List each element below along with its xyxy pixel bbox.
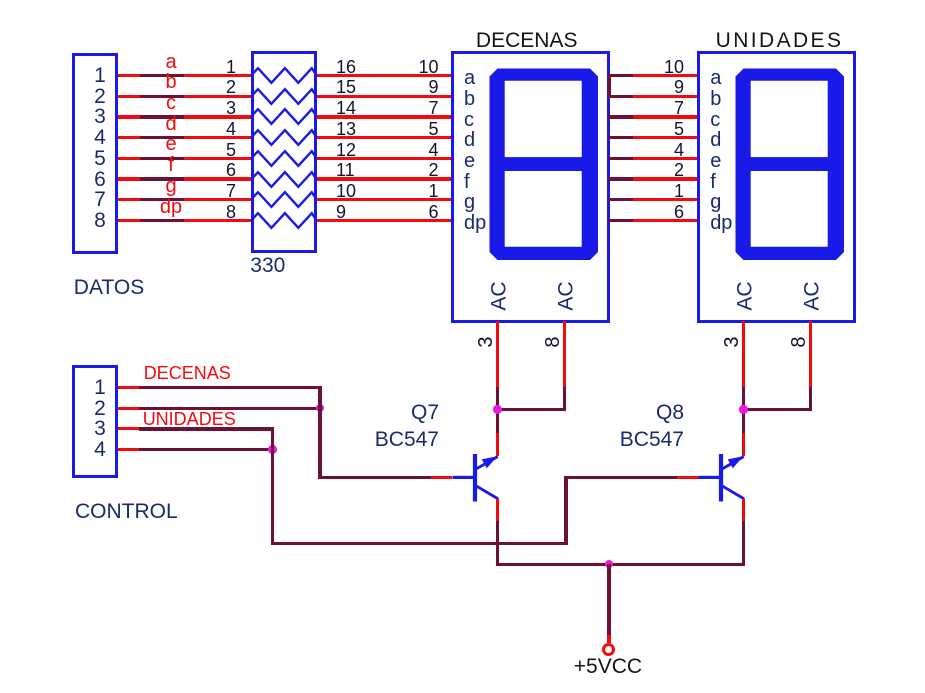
UNIDADES AC pin 8 wire (net) [809, 387, 812, 411]
wire DECENAS to UNIDADES segment d (net part) [608, 136, 633, 139]
DECENAS AC label right [556, 281, 577, 310]
wire +5VCC stem tip [607, 635, 611, 644]
DECENAS segment pin label a [464, 68, 475, 88]
wire Q7 emitter (net) [496, 521, 499, 566]
label CONTROL [75, 501, 178, 522]
wire RN1 pin 9 to DECENAS segment dp [317, 219, 452, 222]
wire RN1 pin 15 to DECENAS segment b [317, 95, 452, 98]
wire DECENAS to UNIDADES segment f (net part) [608, 177, 633, 181]
pin number 8 of UNIDADES [789, 336, 809, 347]
DATOS pin 3 number [94, 106, 106, 127]
wire dp from DATOS pin 8 to RN1 pin 8 [118, 219, 252, 222]
pin number 11 of RN1 [336, 161, 355, 179]
pin number 14 of RN1 [336, 99, 356, 117]
DECENAS 7-segment digit [489, 68, 599, 261]
wire f from DATOS pin 6 to RN1 pin 6 [118, 177, 252, 181]
label DATOS [74, 277, 144, 298]
pin number 4 of UNIDADES [674, 141, 684, 159]
wire DECENAS to UNIDADES segment g (net part) [608, 198, 633, 201]
pin number 2 of UNIDADES [674, 161, 684, 179]
pin number 6 of DECENAS [428, 203, 438, 221]
wire DECENAS to UNIDADES segment dp (net part) [608, 219, 633, 222]
wire Q8 emitter (net) [742, 521, 745, 566]
pin number 9 of DECENAS [428, 78, 438, 96]
wire RN1 pin 11 to DECENAS segment f [317, 177, 452, 181]
wire DECENAS to UNIDADES segment f [633, 177, 698, 181]
wire d from DATOS pin 4 to RN1 pin 4 [118, 136, 252, 139]
pin number 5 of RN1 [226, 141, 236, 159]
wire DECENAS to UNIDADES segment a [633, 74, 698, 77]
resistor element 7 of RN1 [250, 190, 318, 209]
pin number 16 of RN1 [336, 58, 356, 76]
pin number 5 of DECENAS [428, 120, 438, 138]
terminal +5VCC [602, 643, 615, 656]
pin number 10 of DECENAS [418, 58, 438, 76]
DECENAS segment pin label g [464, 192, 475, 212]
wire Q8 emitter (red) [742, 499, 745, 521]
pin number 13 of RN1 [336, 120, 356, 138]
wire CONTROL pin 2 stub [118, 407, 140, 410]
UNIDADES segment pin label f [710, 172, 716, 192]
UNIDADES segment pin label g [710, 192, 721, 212]
DATOS pin 6 number [94, 169, 106, 190]
net label dp [160, 197, 182, 217]
UNIDADES AC pin 8 wire (red) [809, 321, 812, 388]
resistor element 3 of RN1 [250, 107, 318, 126]
wire to Q8 base (red) [677, 476, 700, 479]
DECENAS segment pin label dp [464, 213, 486, 233]
pin number 10 of RN1 [336, 182, 356, 200]
pin number 10 of UNIDADES [664, 58, 684, 76]
pin number 1 of DECENAS [428, 182, 438, 200]
pin number 6 of UNIDADES [674, 203, 684, 221]
DATOS pin 4 number [94, 127, 106, 148]
wire b from DATOS pin 2 to RN1 pin 2 [118, 95, 252, 98]
pin number 1 of UNIDADES [674, 182, 684, 200]
UNIDADES AC pin 3 wire (red) [742, 321, 745, 388]
wire UNIDADES control vertical up [564, 476, 567, 545]
DECENAS AC pin 3 wire (net) [496, 387, 499, 433]
resistor element 5 of RN1 [250, 149, 318, 168]
label +5VCC [574, 656, 642, 677]
net label b [165, 72, 176, 92]
pin number 5 of UNIDADES [674, 120, 684, 138]
DECENAS segment pin label e [464, 151, 475, 171]
resistor element 2 of RN1 [250, 87, 318, 106]
DATOS pin 8 number [94, 210, 106, 231]
pin number 4 of RN1 [226, 120, 236, 138]
pin number 8 of DECENAS [543, 336, 563, 347]
label Q7 value BC547 [375, 429, 439, 450]
pin number 9 of UNIDADES [674, 78, 684, 96]
wire DECENAS to UNIDADES segment a (net part) [608, 74, 633, 77]
net label a [165, 52, 176, 72]
CONTROL pin 2 number [94, 398, 106, 419]
resistor element 1 of RN1 [250, 66, 318, 85]
wire DECENAS control net (pin1) [139, 386, 321, 389]
label Q7 [411, 402, 439, 423]
DATOS pin 2 number [94, 86, 106, 107]
net label f [168, 155, 174, 175]
DATOS pin 5 number [94, 148, 106, 169]
vertical net jog at DECENAS edge [608, 75, 611, 96]
wire UNIDADES control horizontal low [271, 542, 568, 545]
junction UNIDADES AC node [739, 405, 747, 413]
transistor Q8 [696, 448, 748, 504]
label Q8 value BC547 [620, 429, 684, 450]
wire RN1 pin 12 to DECENAS segment e [317, 157, 452, 160]
DECENAS segment pin label d [464, 130, 475, 150]
wire DECENAS to UNIDADES segment e [633, 157, 698, 160]
UNIDADES segment pin label a [710, 68, 721, 88]
pin number 7 of DECENAS [428, 99, 438, 117]
net segment on wire e [140, 157, 184, 160]
DATOS pin 7 number [94, 189, 106, 210]
CONTROL pin 4 number [94, 439, 106, 460]
wire DECENAS to UNIDADES segment e (net part) [608, 157, 633, 160]
net label e [165, 134, 176, 154]
pin number 3 of DECENAS [476, 336, 496, 347]
wire c from DATOS pin 3 to RN1 pin 3 [118, 115, 252, 119]
wire DECENAS control net (pin2) [139, 407, 318, 410]
DECENAS AC pin 3 wire to Q7 collector [496, 433, 499, 456]
wire UNIDADES control net (pin3) [139, 427, 274, 431]
wire RN1 pin 14 to DECENAS segment c [317, 115, 452, 119]
wire joining DECENAS AC pins [496, 408, 566, 411]
net segment on wire b [140, 95, 184, 98]
label Q8 [656, 402, 684, 423]
DECENAS AC pin 8 wire (red) [563, 321, 566, 388]
wire DECENAS to UNIDADES segment d [633, 136, 698, 139]
UNIDADES AC pin 3 wire (net) [742, 387, 745, 433]
wire emitter rail [496, 563, 745, 566]
wire Q7 emitter (red) [496, 499, 499, 521]
pin number 4 of DECENAS [428, 141, 438, 159]
label DECENAS title [476, 30, 578, 51]
wire RN1 pin 16 to DECENAS segment a [317, 74, 452, 77]
junction CONTROL pins 1-2 [316, 404, 324, 412]
junction +5VCC node [605, 560, 613, 568]
UNIDADES AC label right [802, 281, 823, 310]
pin number 2 of DECENAS [428, 161, 438, 179]
DECENAS segment pin label b [464, 89, 475, 109]
pin number 12 of RN1 [336, 141, 356, 159]
net label d [165, 114, 176, 134]
value label 330 [250, 255, 285, 276]
UNIDADES segment pin label c [710, 110, 720, 130]
UNIDADES segment pin label dp [710, 213, 732, 233]
wire to Q8 base (net) [564, 476, 677, 479]
display DS1 DECENAS body [451, 51, 610, 323]
pin number 15 of RN1 [336, 78, 356, 96]
wire to Q7 base (red) [431, 476, 452, 479]
wire +5VCC stem [607, 564, 610, 635]
net label g [165, 176, 176, 196]
DECENAS AC pin 8 wire (net) [563, 387, 566, 411]
display DS2 UNIDADES body [697, 51, 856, 323]
resistor network RN1 body [251, 51, 317, 253]
net segment on wire g [140, 198, 184, 201]
UNIDADES segment pin label d [710, 130, 721, 150]
UNIDADES segment pin label e [710, 151, 721, 171]
wire DECENAS to UNIDADES segment b [633, 95, 698, 98]
pin number 2 of RN1 [226, 78, 236, 96]
wire CONTROL pin 3 stub [118, 427, 140, 430]
net segment on wire f [140, 177, 184, 181]
pin number 7 of UNIDADES [674, 99, 684, 117]
pin number 6 of RN1 [226, 161, 236, 179]
DATOS pin 1 number [94, 65, 106, 86]
UNIDADES AC label left [735, 281, 756, 310]
pin number 9 of RN1 [336, 203, 346, 221]
wire g from DATOS pin 7 to RN1 pin 7 [118, 198, 252, 201]
CONTROL pin 1 number [94, 377, 106, 398]
pin number 3 of RN1 [226, 99, 236, 117]
resistor element 6 of RN1 [250, 170, 318, 189]
DECENAS AC pin 3 wire (red) [496, 321, 499, 388]
wire RN1 pin 13 to DECENAS segment d [317, 136, 452, 139]
net label c [166, 93, 176, 113]
UNIDADES AC pin 3 wire to Q8 collector [742, 433, 745, 456]
wire DECENAS to UNIDADES segment g [633, 198, 698, 201]
junction DECENAS AC node [493, 405, 501, 413]
transistor Q7 [450, 448, 502, 504]
wire to Q7 base (net) [318, 476, 431, 479]
pin number 3 of UNIDADES [722, 336, 742, 347]
wire DECENAS to UNIDADES segment dp [633, 219, 698, 222]
wire DECENAS to UNIDADES segment c [633, 115, 698, 119]
label UNIDADES title [716, 30, 844, 51]
wire CONTROL pin 4 stub [118, 448, 140, 451]
pin number 7 of RN1 [226, 182, 236, 200]
resistor element 8 of RN1 [250, 211, 318, 230]
wire UNIDADES control net (pin4) [139, 448, 271, 451]
wire CONTROL pin 1 stub [118, 386, 140, 389]
junction CONTROL pins 3-4 [268, 445, 276, 453]
connector J2 CONTROL body [72, 365, 118, 478]
connector J1 DATOS body [72, 53, 118, 254]
wire DECENAS to UNIDADES segment c (net part) [608, 115, 633, 119]
net segment on wire dp [140, 219, 184, 222]
wire UNIDADES control vertical [271, 429, 274, 545]
UNIDADES 7-segment digit [735, 68, 845, 261]
wire e from DATOS pin 5 to RN1 pin 5 [118, 157, 252, 160]
pin number 8 of RN1 [226, 203, 236, 221]
net label UNIDADES [143, 410, 236, 428]
net segment on wire c [140, 115, 184, 119]
UNIDADES segment pin label b [710, 89, 721, 109]
wire joining UNIDADES AC pins [742, 408, 812, 411]
net segment on wire d [140, 136, 184, 139]
wire DECENAS to UNIDADES segment b (net part) [608, 95, 633, 98]
DECENAS segment pin label c [464, 110, 474, 130]
resistor element 4 of RN1 [250, 128, 318, 147]
net segment on wire a [140, 74, 184, 77]
wire RN1 pin 10 to DECENAS segment g [317, 198, 452, 201]
DECENAS segment pin label f [464, 172, 470, 192]
wire DECENAS control vertical [318, 387, 321, 479]
CONTROL pin 3 number [94, 418, 106, 439]
net label DECENAS [144, 364, 231, 382]
pin number 1 of RN1 [226, 58, 236, 76]
DECENAS AC label left [489, 281, 510, 310]
wire a from DATOS pin 1 to RN1 pin 1 [118, 74, 252, 77]
